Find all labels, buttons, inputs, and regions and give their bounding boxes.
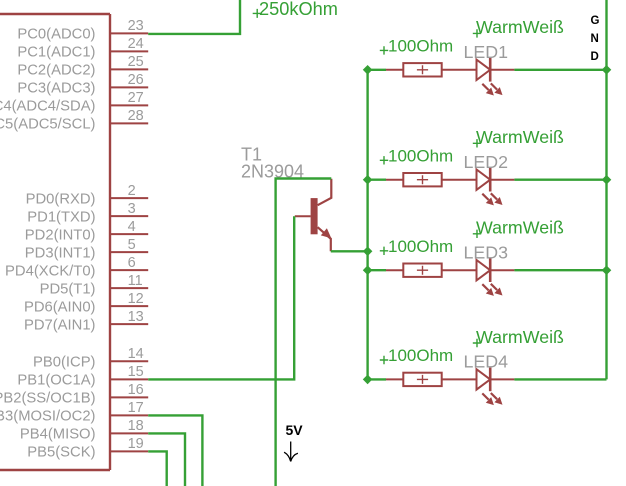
wire 5V net: collector to bottom edge: [276, 179, 332, 486]
net label GND (vertical): [591, 15, 600, 63]
svg-text:WarmWeiß: WarmWeiß: [476, 327, 564, 347]
svg-text:18: 18: [128, 418, 144, 434]
svg-text:100Ohm: 100Ohm: [388, 237, 453, 256]
junction left bus row 2: [363, 175, 373, 185]
pin 18 PB4(MISO): [20, 418, 148, 442]
wire anode bus (left vertical): [366, 70, 368, 380]
svg-text:23: 23: [128, 18, 144, 34]
svg-text:100Ohm: 100Ohm: [388, 36, 453, 55]
LED LED2: [477, 168, 515, 206]
junction GND bus row 2: [602, 175, 612, 185]
svg-text:11: 11: [128, 273, 143, 289]
svg-text:PC4(ADC4/SDA): PC4(ADC4/SDA): [0, 99, 96, 115]
junction left bus row 3: [363, 265, 373, 275]
svg-text:6: 6: [128, 255, 136, 271]
wire GND bus (right vertical): [605, 0, 607, 379]
svg-text:4: 4: [128, 219, 136, 235]
pin 15 PB1(OC1A): [17, 364, 148, 388]
pin 16 PB2(SS/OC1B): [0, 382, 148, 406]
value label 100Ohm (R2): [380, 146, 453, 165]
LED LED4: [477, 368, 515, 406]
svg-text:PD5(T1): PD5(T1): [40, 281, 96, 297]
svg-text:PD6(AIN0): PD6(AIN0): [24, 299, 96, 315]
value label 100Ohm (R4): [380, 346, 453, 365]
wire anode bus to R4: [368, 378, 386, 380]
svg-text:100Ohm: 100Ohm: [388, 346, 453, 365]
pin 2 PD0(RXD): [26, 183, 149, 207]
pin 24 PC1(ADC1): [17, 36, 148, 60]
net label WarmWei&#223; row 2: [473, 127, 564, 147]
svg-text:D: D: [591, 51, 599, 63]
svg-text:24: 24: [128, 36, 144, 52]
wire pin 18 (MISO) down: [148, 433, 185, 486]
wire LED4 cathode to GND bus: [514, 378, 606, 380]
pin 28 PC5(ADC5/SCL): [0, 108, 148, 132]
svg-text:26: 26: [128, 72, 144, 88]
net label WarmWei&#223; row 3: [473, 218, 564, 238]
svg-text:PD4(XCK/T0): PD4(XCK/T0): [5, 263, 96, 279]
svg-text:2: 2: [128, 183, 136, 199]
value label 100Ohm (R3): [380, 237, 453, 256]
svg-text:PC2(ADC2): PC2(ADC2): [17, 63, 95, 79]
pin 3 PD1(TXD): [27, 201, 148, 225]
wire LED1 cathode to GND bus: [514, 69, 606, 71]
svg-text:5V: 5V: [286, 422, 304, 438]
svg-text:PB4(MISO): PB4(MISO): [20, 427, 96, 443]
svg-text:17: 17: [128, 400, 144, 416]
wire LED3 cathode to GND bus: [514, 269, 606, 271]
wire anode bus to R2: [368, 178, 386, 180]
resistor R2 100Ohm: [386, 173, 477, 186]
value label 100Ohm (R1): [380, 36, 453, 55]
junction left bus row 1: [363, 65, 373, 75]
svg-text:19: 19: [128, 436, 144, 452]
pin 27 PC4(ADC4/SDA): [0, 90, 148, 114]
svg-text:PD2(INT0): PD2(INT0): [25, 227, 96, 243]
svg-text:PB0(ICP): PB0(ICP): [33, 355, 96, 371]
svg-text:5: 5: [128, 237, 136, 253]
junction GND bus row 1: [602, 65, 612, 75]
svg-text:12: 12: [128, 291, 144, 307]
wire pin 19 (SCK) down: [148, 451, 167, 486]
wire emitter to LED anode bus: [331, 250, 368, 252]
svg-text:WarmWeiß: WarmWeiß: [476, 127, 564, 147]
supply symbol 5V: [284, 422, 303, 462]
resistor R4 100Ohm: [386, 373, 477, 386]
wire N$1: pin 23 to potentiometer net (exits top): [148, 0, 240, 34]
name label LED3: [464, 242, 509, 262]
net label WarmWei&#223; row 4: [473, 327, 564, 347]
svg-text:G: G: [591, 15, 600, 27]
name label LED1: [464, 42, 509, 62]
LED LED3: [477, 258, 515, 296]
wire anode bus to R3: [368, 269, 386, 271]
transistor T1 labels: [241, 145, 304, 182]
pin 11 PD5(T1): [40, 273, 149, 297]
name label LED2: [464, 152, 508, 172]
resistor R3 100Ohm: [386, 264, 477, 277]
svg-text:PB3(MOSI/OC2): PB3(MOSI/OC2): [0, 409, 96, 425]
svg-text:PD0(RXD): PD0(RXD): [26, 191, 96, 207]
svg-text:14: 14: [128, 346, 144, 362]
svg-text:27: 27: [128, 90, 144, 106]
wire anode bus to R1: [368, 69, 386, 71]
svg-text:100Ohm: 100Ohm: [388, 146, 453, 165]
svg-text:PC3(ADC3): PC3(ADC3): [17, 81, 95, 97]
pin 13 PD7(AIN1): [24, 309, 148, 333]
wire base: pin 15 to base: [148, 216, 294, 379]
pin 19 PB5(SCK): [27, 436, 148, 460]
net label 250kOhm: [253, 0, 338, 19]
pin 12 PD6(AIN0): [24, 291, 148, 315]
svg-text:PD3(INT1): PD3(INT1): [25, 245, 96, 261]
svg-text:3: 3: [128, 201, 136, 217]
pin 25 PC2(ADC2): [17, 54, 148, 78]
svg-text:LED2: LED2: [464, 152, 508, 172]
transistor T1 2N3904 (NPN): [295, 179, 332, 252]
pin 26 PC3(ADC3): [17, 72, 148, 96]
svg-text:LED3: LED3: [464, 242, 509, 262]
wire LED2 cathode to GND bus: [514, 178, 606, 180]
svg-text:WarmWeiß: WarmWeiß: [476, 218, 564, 238]
svg-text:25: 25: [128, 54, 144, 70]
pin 23 PC0(ADC0): [17, 18, 148, 42]
name label LED4: [464, 352, 509, 372]
svg-text:PB1(OC1A): PB1(OC1A): [17, 373, 95, 389]
pin 4 PD2(INT0): [25, 219, 148, 243]
wire pin 17 (MOSI/OC2) down: [148, 415, 202, 486]
svg-text:LED4: LED4: [464, 352, 509, 372]
pin 17 PB3(MOSI/OC2): [0, 400, 148, 424]
svg-text:250kOhm: 250kOhm: [259, 0, 338, 19]
net label WarmWei&#223; row 1: [473, 17, 564, 37]
svg-text:PC1(ADC1): PC1(ADC1): [17, 45, 95, 61]
svg-text:N: N: [591, 33, 599, 45]
svg-text:PB2(SS/OC1B): PB2(SS/OC1B): [0, 391, 96, 407]
pin 14 PB0(ICP): [33, 346, 148, 370]
svg-text:PC0(ADC0): PC0(ADC0): [17, 27, 95, 43]
junction at emitter/anode bus: [363, 247, 373, 257]
pin 6 PD4(XCK/T0): [5, 255, 148, 279]
junction GND bus row 3: [602, 265, 612, 275]
svg-text:16: 16: [128, 382, 144, 398]
svg-text:WarmWeiß: WarmWeiß: [476, 17, 564, 37]
svg-text:LED1: LED1: [464, 42, 509, 62]
svg-text:PD7(AIN1): PD7(AIN1): [24, 317, 96, 333]
svg-text:15: 15: [128, 364, 144, 380]
IC U1 (ATmega) body: [0, 14, 110, 470]
pin 5 PD3(INT1): [25, 237, 148, 261]
svg-text:PB5(SCK): PB5(SCK): [27, 445, 95, 461]
svg-text:PC5(ADC5/SCL): PC5(ADC5/SCL): [0, 117, 96, 133]
svg-text:PD1(TXD): PD1(TXD): [27, 209, 95, 225]
resistor R1 100Ohm: [386, 63, 477, 76]
svg-text:13: 13: [128, 309, 144, 325]
LED LED1: [477, 58, 515, 96]
junction left bus row 4: [363, 375, 373, 385]
svg-text:28: 28: [128, 108, 144, 124]
